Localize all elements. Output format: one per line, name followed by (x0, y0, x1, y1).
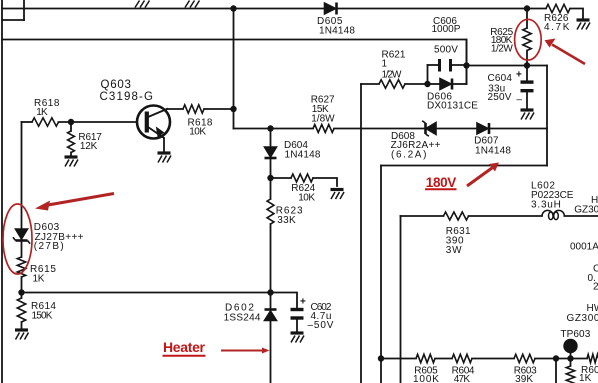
svg-text:39K: 39K (515, 374, 533, 383)
svg-text:1/2W: 1/2W (382, 70, 402, 81)
svg-text:180V: 180V (426, 175, 457, 190)
svg-text:Q603: Q603 (101, 79, 133, 91)
svg-text:–: – (517, 95, 523, 106)
svg-text:12K: 12K (80, 141, 98, 152)
svg-text:1K: 1K (33, 274, 45, 285)
svg-text:1N4148: 1N4148 (475, 145, 511, 156)
svg-text:10K: 10K (298, 193, 315, 204)
svg-text:(6.2A): (6.2A) (391, 149, 427, 160)
svg-text:–50V: –50V (308, 320, 334, 331)
svg-text:10K: 10K (189, 127, 206, 138)
svg-text:0001A: 0001A (570, 242, 598, 253)
svg-text:1: 1 (382, 59, 388, 70)
svg-text:GZ30: GZ30 (574, 205, 598, 216)
svg-text:GZ300: GZ300 (567, 313, 598, 324)
svg-text:100K: 100K (413, 374, 439, 383)
svg-text:TP603: TP603 (560, 329, 590, 340)
svg-text:250V: 250V (488, 92, 512, 103)
svg-text:3.3uH: 3.3uH (531, 200, 561, 211)
svg-text:1K: 1K (36, 107, 48, 118)
svg-text:+: + (516, 70, 522, 81)
svg-text:Heater: Heater (163, 339, 206, 355)
svg-text:C604: C604 (488, 73, 513, 84)
svg-text:47K: 47K (454, 374, 471, 383)
svg-text:1N4148: 1N4148 (285, 150, 321, 161)
svg-text:2: 2 (593, 282, 598, 293)
svg-text:3W: 3W (446, 245, 462, 256)
svg-text:1/2W: 1/2W (491, 44, 513, 55)
svg-text:500V: 500V (434, 45, 458, 56)
svg-text:DX0131CE: DX0131CE (427, 101, 478, 112)
svg-text:150K: 150K (32, 311, 53, 322)
svg-text:+: + (300, 297, 306, 308)
svg-text:33K: 33K (277, 215, 296, 226)
svg-text:1N4148: 1N4148 (319, 25, 355, 36)
svg-text:4.7K: 4.7K (544, 22, 570, 33)
svg-text:1SS244: 1SS244 (224, 313, 261, 324)
svg-text:C3198-G: C3198-G (100, 91, 155, 103)
svg-text:1000P: 1000P (432, 24, 461, 35)
svg-text:1/8W: 1/8W (311, 114, 335, 125)
svg-text:1K: 1K (579, 373, 592, 383)
